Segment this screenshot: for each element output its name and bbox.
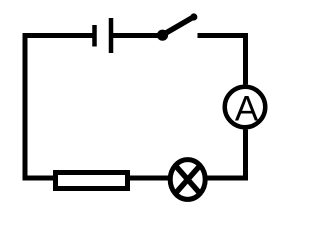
wire: top-left from battery to corner, down left side, to resistor xyxy=(25,36,93,179)
svg-text:A: A xyxy=(235,90,259,129)
switch S1 lever (open) xyxy=(163,17,194,35)
switch S1 lever tip xyxy=(190,13,197,20)
lamp L1 cross stroke 2 xyxy=(175,165,200,193)
ammeter A1 circle xyxy=(225,87,266,128)
wire: ammeter down to bottom-right corner, left to lamp xyxy=(207,130,246,179)
switch S1 pivot dot xyxy=(157,30,168,41)
lamp L1 cross stroke 1 xyxy=(175,165,200,193)
resistor R1 box xyxy=(56,173,128,189)
wire: switch to top-right corner, down to ammeter xyxy=(198,36,246,85)
wire: battery to switch xyxy=(113,33,160,38)
battery cell B1 short plate (negative) xyxy=(92,25,97,47)
wire: resistor to lamp xyxy=(130,176,170,181)
lamp L1 circle xyxy=(170,160,205,200)
battery cell B1 long plate (positive) xyxy=(109,18,114,53)
